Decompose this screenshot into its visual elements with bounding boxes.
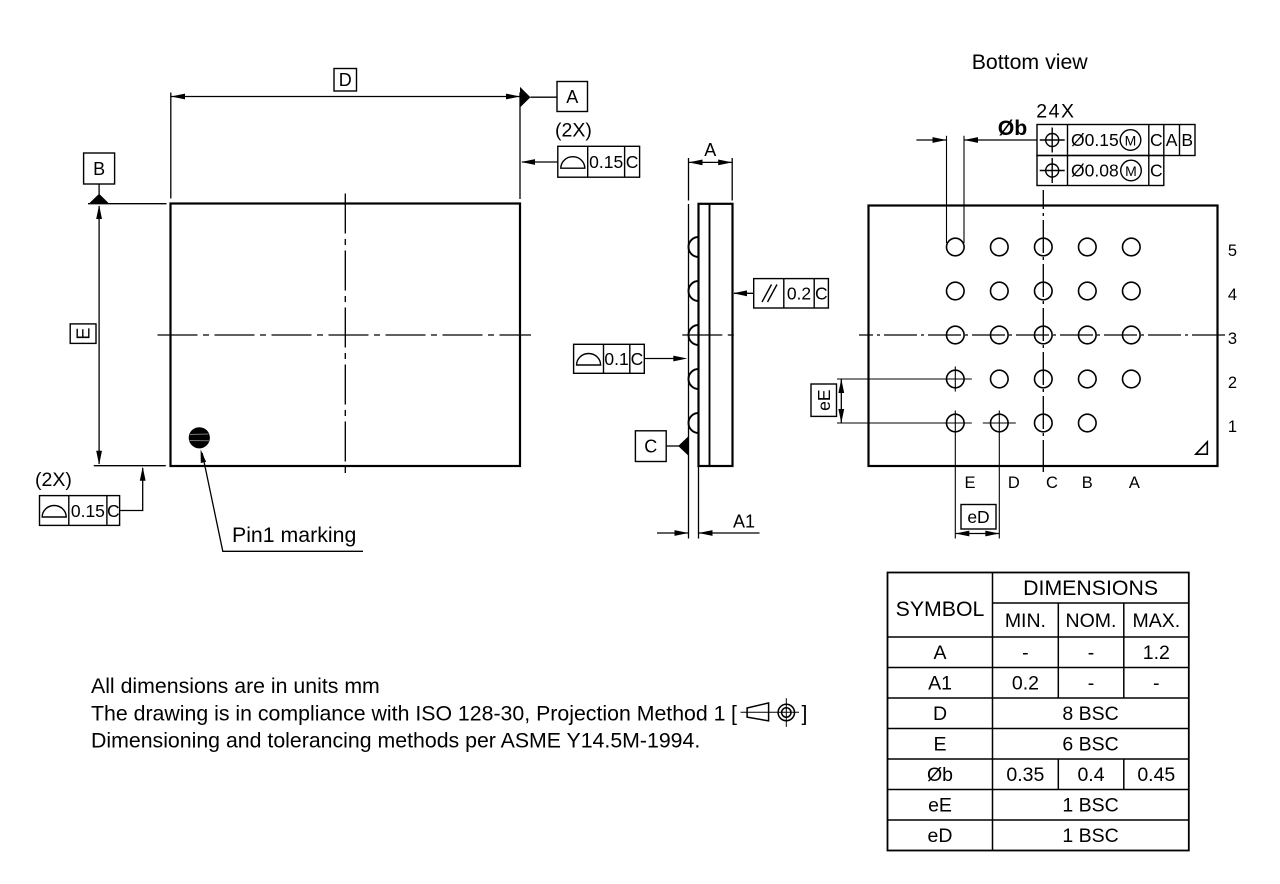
svg-text:6 BSC: 6 BSC xyxy=(1062,734,1118,756)
bottom extension line of E xyxy=(94,465,166,467)
dimension D arrowheads xyxy=(171,94,185,100)
svg-text:SYMBOL: SYMBOL xyxy=(896,597,985,621)
datum C triangle xyxy=(678,436,688,455)
svg-text:B: B xyxy=(1181,130,1193,150)
table outer border xyxy=(888,573,1189,851)
svg-text:Ø0.15: Ø0.15 xyxy=(1071,130,1119,150)
datum A box xyxy=(557,82,588,112)
svg-text:0.2: 0.2 xyxy=(787,284,811,304)
svg-text:The drawing is in compliance w: The drawing is in compliance with ISO 12… xyxy=(91,702,726,726)
solder ball arcs xyxy=(689,237,699,257)
datum C box xyxy=(635,431,666,462)
svg-text:(2X): (2X) xyxy=(555,120,592,142)
eE label box xyxy=(811,384,837,416)
eD label box xyxy=(961,505,996,530)
datum B box xyxy=(84,153,115,184)
svg-text:A: A xyxy=(933,642,946,664)
svg-text:eE: eE xyxy=(814,389,834,410)
svg-text:1: 1 xyxy=(1228,418,1237,436)
svg-text:C: C xyxy=(1150,161,1163,181)
svg-text:MAX.: MAX. xyxy=(1132,610,1180,632)
datum B stem xyxy=(98,184,100,194)
bottom view vertical centerline xyxy=(1042,190,1044,472)
svg-text:A1: A1 xyxy=(928,673,952,695)
svg-text:E: E xyxy=(964,474,975,492)
top extension line of E xyxy=(88,203,167,205)
svg-text:1 BSC: 1 BSC xyxy=(1062,825,1118,847)
svg-text:Pin1 marking: Pin1 marking xyxy=(232,523,356,547)
dimension E line xyxy=(98,206,100,464)
projection method frustum symbol xyxy=(747,703,769,721)
svg-text:-: - xyxy=(1088,642,1095,664)
eD dimension xyxy=(955,533,999,535)
svg-text:C: C xyxy=(626,152,639,172)
svg-text:A: A xyxy=(566,87,578,107)
position frame row 1 xyxy=(1037,125,1195,156)
front view outline xyxy=(171,204,521,467)
svg-text:Bottom view: Bottom view xyxy=(972,50,1089,74)
svg-text:D: D xyxy=(1008,474,1020,492)
svg-text:B: B xyxy=(1082,474,1093,492)
svg-text:C: C xyxy=(815,284,828,304)
position frame row 2 xyxy=(1037,156,1164,186)
parallelism frame // 0.2 C xyxy=(754,279,829,308)
datum C stem xyxy=(666,445,679,447)
profile frame 0.15 C (bottom left) xyxy=(40,496,120,526)
E1 crosshair / eE eD extension xyxy=(837,422,972,424)
parallelism leader arrow xyxy=(734,292,754,294)
svg-text:A1: A1 xyxy=(733,512,755,532)
Øb extension lines xyxy=(946,136,948,243)
dimension A line xyxy=(689,161,733,163)
side view inner line xyxy=(709,204,711,466)
svg-text:-: - xyxy=(1088,673,1095,695)
profile frame leader arrow (top right) xyxy=(522,161,558,163)
dimension D extension line left xyxy=(170,93,172,199)
svg-text:eD: eD xyxy=(967,507,989,527)
svg-text:]: ] xyxy=(802,702,808,726)
svg-text:C: C xyxy=(1046,474,1058,492)
svg-text:E: E xyxy=(73,328,93,340)
datum A triangle xyxy=(520,87,530,108)
bottom view outline xyxy=(869,206,1218,467)
pin1 leader wire xyxy=(202,453,363,551)
svg-text:NOM.: NOM. xyxy=(1066,610,1117,632)
pin1 marking dot xyxy=(189,427,210,448)
svg-text:C: C xyxy=(1150,130,1163,150)
side view centerline xyxy=(682,334,738,336)
svg-text:Ø0.08: Ø0.08 xyxy=(1071,161,1119,181)
seating plane line (datum C plane) xyxy=(688,158,690,201)
front view horizontal centerline xyxy=(158,334,532,336)
svg-text:C: C xyxy=(644,437,657,457)
svg-text:24X: 24X xyxy=(1036,101,1075,123)
svg-text:0.15: 0.15 xyxy=(71,501,105,521)
svg-text:0.4: 0.4 xyxy=(1077,764,1104,786)
bottom view horizontal centerline xyxy=(859,334,1226,336)
projection method circle symbol xyxy=(778,704,794,720)
svg-text:2: 2 xyxy=(1228,374,1237,392)
svg-text:A: A xyxy=(1129,474,1140,492)
svg-text:0.1: 0.1 xyxy=(604,349,628,369)
dimension D extension line right xyxy=(519,93,521,200)
svg-text:A: A xyxy=(704,140,716,160)
svg-text:5: 5 xyxy=(1228,242,1237,260)
profile 0.1 leader arrow xyxy=(644,358,675,360)
svg-text:D: D xyxy=(339,70,352,90)
svg-text:M: M xyxy=(1125,133,1137,149)
svg-text:3: 3 xyxy=(1228,330,1237,348)
svg-text:A: A xyxy=(1166,130,1178,150)
datum B triangle xyxy=(89,194,110,204)
side view body xyxy=(699,204,733,466)
svg-text:E: E xyxy=(933,734,946,756)
svg-text:1.2: 1.2 xyxy=(1143,642,1170,664)
dimension A1 xyxy=(657,532,689,534)
svg-text:-: - xyxy=(1153,673,1160,695)
svg-text:8 BSC: 8 BSC xyxy=(1062,703,1118,725)
dimension D label box xyxy=(334,69,357,92)
svg-text:MIN.: MIN. xyxy=(1005,610,1046,632)
eE dimension xyxy=(840,379,842,423)
table row lines xyxy=(993,602,1189,604)
svg-text:-: - xyxy=(1022,642,1029,664)
profile frame 0.15 C (top right) xyxy=(558,146,640,177)
svg-text:4: 4 xyxy=(1228,286,1237,304)
svg-text:Øb: Øb xyxy=(998,116,1028,140)
svg-text:M: M xyxy=(1125,163,1137,179)
datum A leader xyxy=(530,96,557,98)
A1 extension line xyxy=(698,466,700,539)
svg-text:All dimensions are in units mm: All dimensions are in units mm xyxy=(91,674,380,698)
D1 crosshair / eD extension xyxy=(983,422,1016,424)
ball grid circles xyxy=(947,238,1141,432)
profile frame leader (bottom left) xyxy=(120,468,143,511)
pin1 leader arrowhead xyxy=(201,450,207,464)
svg-text:B: B xyxy=(93,159,105,179)
svg-text:C: C xyxy=(631,349,644,369)
svg-text:(2X): (2X) xyxy=(35,469,72,491)
svg-text:DIMENSIONS: DIMENSIONS xyxy=(1023,576,1158,600)
svg-text:0.45: 0.45 xyxy=(1137,764,1175,786)
front view vertical centerline xyxy=(344,194,346,477)
profile frame 0.1 C (side) xyxy=(574,344,645,373)
svg-text:eD: eD xyxy=(928,825,953,847)
svg-text:D: D xyxy=(933,703,947,725)
chamfer corner mark xyxy=(1196,442,1208,454)
dimension D line xyxy=(171,96,520,98)
svg-text:0.35: 0.35 xyxy=(1006,764,1044,786)
dimension E label box xyxy=(70,324,96,344)
A dimension right extension xyxy=(731,158,733,201)
svg-text:eE: eE xyxy=(928,795,952,817)
svg-text:Dimensioning and tolerancing m: Dimensioning and tolerancing methods per… xyxy=(91,729,700,753)
Øb dimension xyxy=(916,139,946,141)
svg-text:C: C xyxy=(107,501,120,521)
svg-text:Øb: Øb xyxy=(927,764,953,786)
svg-text:[: [ xyxy=(731,702,737,726)
svg-text:1 BSC: 1 BSC xyxy=(1062,795,1118,817)
table column lines xyxy=(992,573,994,851)
E2 crosshair / eE extension xyxy=(837,378,972,380)
svg-text:0.15: 0.15 xyxy=(589,152,623,172)
svg-text:0.2: 0.2 xyxy=(1012,673,1039,695)
